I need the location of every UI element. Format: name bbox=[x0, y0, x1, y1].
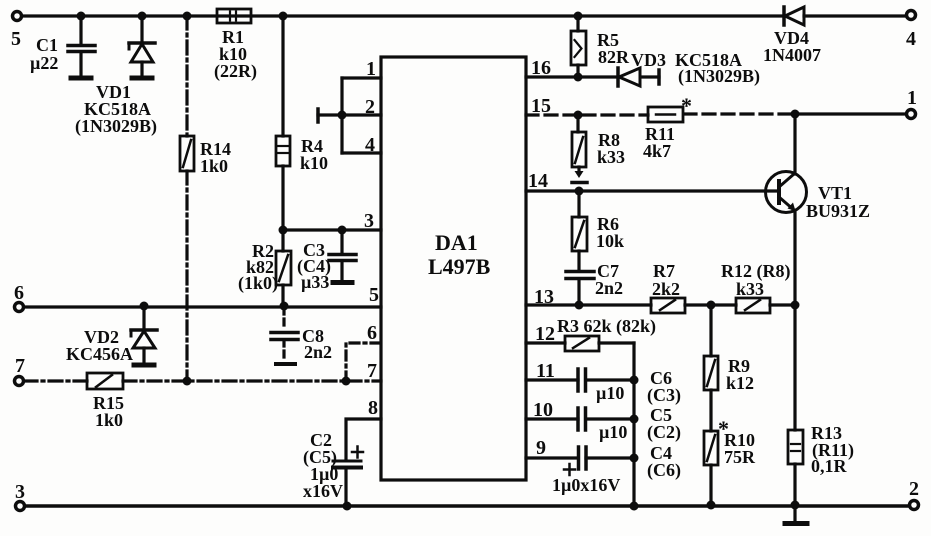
svg-text:82R: 82R bbox=[598, 47, 630, 67]
node junction R8/pin15 bbox=[574, 111, 583, 120]
node junction R5/top rail bbox=[574, 12, 583, 21]
capacitor C2 (C5) 1µ0 x16V polarized bbox=[303, 430, 363, 505]
svg-text:1N4007: 1N4007 bbox=[763, 45, 821, 65]
svg-text:4: 4 bbox=[906, 28, 916, 50]
svg-text:(C3): (C3) bbox=[647, 385, 681, 406]
svg-text:(1N3029B): (1N3029B) bbox=[75, 116, 157, 137]
pin 8 label bbox=[368, 397, 378, 419]
pin 1 wire bbox=[342, 58, 381, 80]
pin 10 label bbox=[533, 399, 553, 421]
terminal 3 bbox=[15, 481, 25, 511]
resistor R9 k12 bbox=[704, 305, 754, 431]
node junction dash-dot/top rail bbox=[183, 12, 192, 21]
resistor R14 1k0 bbox=[180, 136, 231, 176]
svg-text:(C6): (C6) bbox=[647, 460, 681, 481]
pin 14 label bbox=[528, 170, 548, 192]
svg-text:R3 62k (82k): R3 62k (82k) bbox=[557, 316, 656, 337]
pin 5 label bbox=[369, 284, 379, 306]
svg-text:8: 8 bbox=[368, 397, 378, 419]
svg-text:k33: k33 bbox=[597, 147, 625, 167]
svg-text:5: 5 bbox=[369, 284, 379, 306]
terminal 7 bbox=[15, 355, 26, 386]
node junction dash-dot vertical/net7 bbox=[183, 377, 192, 386]
svg-text:2: 2 bbox=[909, 478, 919, 500]
node junction R4 branch/top rail bbox=[279, 12, 288, 21]
transistor VT1 BU931Z bbox=[766, 114, 871, 305]
wire pin 13 bbox=[526, 303, 795, 306]
svg-text:DA1: DA1 bbox=[435, 230, 478, 255]
capacitor C1 µ22 bbox=[30, 16, 95, 78]
svg-text:(C2): (C2) bbox=[647, 422, 681, 443]
ground bbox=[785, 506, 807, 524]
svg-text:3: 3 bbox=[364, 210, 374, 232]
wire bottom rail bbox=[25, 504, 908, 508]
asterisk mark near R10 bbox=[718, 416, 729, 441]
svg-text:µ10: µ10 bbox=[596, 383, 624, 403]
svg-text:6: 6 bbox=[14, 282, 24, 304]
wire dash-dot link to pin 6 bbox=[346, 343, 381, 381]
svg-text:k33: k33 bbox=[736, 279, 764, 299]
node junction bracket/pin2 stub bbox=[338, 111, 347, 120]
wire pin 14 to base of VT1 bbox=[526, 189, 779, 192]
pin 12 label bbox=[535, 323, 555, 345]
wire capacitor bus vertical bbox=[632, 343, 635, 505]
resistor R7 2k2 bbox=[651, 261, 685, 313]
resistor R11 4k7 bbox=[643, 107, 683, 161]
pin 15 label bbox=[531, 95, 551, 117]
svg-text:1: 1 bbox=[907, 87, 917, 109]
svg-text:R7: R7 bbox=[653, 261, 675, 281]
svg-text:3: 3 bbox=[15, 481, 25, 503]
node junction C2/bottom rail bbox=[343, 502, 352, 511]
node junction R2-C8/net6 bbox=[280, 302, 289, 311]
capacitor C8 2n2 bbox=[271, 308, 332, 364]
capacitor C5 (C2) µ10 bbox=[526, 405, 681, 443]
node junction VD1/top rail bbox=[138, 12, 147, 21]
svg-text:1: 1 bbox=[366, 58, 376, 80]
svg-text:1k0: 1k0 bbox=[95, 410, 123, 430]
node junction C5/bus bbox=[630, 415, 639, 424]
svg-text:VD3: VD3 bbox=[631, 50, 666, 70]
svg-text:10k: 10k bbox=[596, 231, 624, 251]
resistor R15 1k0 bbox=[87, 373, 124, 430]
wire pin 16 bbox=[526, 75, 659, 78]
node junction R6/pin14 bbox=[575, 187, 584, 196]
capacitor C6 (C3) µ10 bbox=[526, 368, 681, 406]
pin 4 wire bbox=[342, 134, 381, 156]
svg-text:4k7: 4k7 bbox=[643, 141, 671, 161]
svg-text:4: 4 bbox=[365, 134, 375, 156]
node junction R13-ground/bottom rail bbox=[791, 501, 800, 510]
wire dash-dot net 7 to pin 7 bbox=[24, 379, 381, 382]
wire bracket tying pins 1-2-4 bbox=[340, 78, 343, 153]
svg-text:14: 14 bbox=[528, 170, 548, 192]
wire net 1 bbox=[795, 112, 906, 115]
svg-text:C1: C1 bbox=[36, 35, 58, 55]
node junction C7/pin13 bbox=[575, 301, 584, 310]
wire pin 8 bbox=[346, 419, 381, 459]
svg-text:2n2: 2n2 bbox=[304, 342, 332, 362]
pin 7 label bbox=[367, 360, 377, 382]
svg-text:1k0: 1k0 bbox=[200, 156, 228, 176]
svg-text:(22R): (22R) bbox=[214, 61, 257, 82]
pin 6 label bbox=[367, 322, 377, 344]
resistor R10 75R bbox=[704, 430, 756, 505]
wire pin 15 dashed bbox=[526, 114, 793, 115]
node junction R4-R2/pin3 bbox=[279, 226, 288, 235]
node junction pin6 link/net7 bbox=[342, 377, 351, 386]
svg-text:k10: k10 bbox=[300, 153, 328, 173]
zener diode VD2 KC456A bbox=[66, 307, 157, 365]
svg-text:7: 7 bbox=[15, 355, 25, 377]
pin 16 label bbox=[531, 57, 551, 79]
svg-text:9: 9 bbox=[536, 437, 546, 459]
svg-text:2: 2 bbox=[365, 96, 375, 118]
svg-text:75R: 75R bbox=[724, 447, 756, 467]
svg-text:5: 5 bbox=[11, 28, 21, 50]
pin 11 label bbox=[536, 360, 555, 382]
resistor R13 (R11) 0,1R bbox=[788, 305, 854, 505]
svg-text:x16V: x16V bbox=[303, 481, 343, 501]
capacitor C7 2n2 bbox=[566, 261, 623, 305]
wire pin 3 bbox=[283, 228, 381, 231]
svg-text:*: * bbox=[681, 93, 692, 118]
terminal 1 bbox=[907, 87, 918, 119]
wire R2 to pin5 rail bbox=[281, 285, 284, 305]
diode VD4 1N4007 bbox=[763, 7, 821, 65]
svg-text:µ22: µ22 bbox=[30, 53, 58, 73]
node junction R12/emitter bbox=[791, 301, 800, 310]
node junction VD2/net6 bbox=[140, 302, 149, 311]
svg-text:VT1: VT1 bbox=[818, 183, 852, 203]
resistor R5 82R bbox=[571, 16, 630, 77]
terminal 4 bbox=[906, 11, 916, 51]
wire net 6 to pin 5 bbox=[24, 305, 381, 308]
svg-text:(1k0): (1k0) bbox=[238, 273, 278, 294]
capacitor C4 (C6) 1µ0x16V polarized bbox=[526, 443, 681, 495]
resistor R3 62k (82k) bbox=[526, 316, 656, 351]
svg-text:2n2: 2n2 bbox=[595, 278, 623, 298]
terminal 5 bbox=[11, 12, 22, 51]
resistor R4 k10 bbox=[276, 136, 328, 173]
node junction R10/bottom rail bbox=[707, 501, 716, 510]
resistor R8 k33 bbox=[572, 115, 625, 183]
wire dash-dot vertical branch bbox=[185, 16, 188, 381]
svg-text:BU931Z: BU931Z bbox=[806, 201, 870, 221]
svg-text:k12: k12 bbox=[726, 373, 754, 393]
svg-text:0,1R: 0,1R bbox=[811, 456, 848, 476]
wire vertical branch to R4/R2 bbox=[281, 16, 284, 251]
svg-text:µ10: µ10 bbox=[599, 422, 627, 442]
svg-text:7: 7 bbox=[367, 360, 377, 382]
diode VD3 KC518A (1N3029B) bbox=[618, 50, 760, 87]
node junction C1/top rail bbox=[77, 12, 86, 21]
svg-text:6: 6 bbox=[367, 322, 377, 344]
svg-text:L497B: L497B bbox=[428, 254, 491, 279]
wire stub with terminal tick at pin 2 bbox=[318, 109, 342, 122]
node junction R5/pin16 bbox=[574, 73, 583, 82]
node junction C3/pin3 bbox=[338, 226, 347, 235]
node junction R7-R9/pin13 bbox=[707, 301, 716, 310]
pin 13 label bbox=[534, 286, 554, 308]
asterisk mark near R11 bbox=[681, 93, 692, 118]
pin 3 label bbox=[364, 210, 374, 232]
svg-text:2k2: 2k2 bbox=[652, 279, 680, 299]
resistor R6 10k bbox=[572, 191, 624, 270]
svg-text:KC456A: KC456A bbox=[66, 344, 133, 364]
node junction bus/bottom rail bbox=[630, 502, 639, 511]
svg-text:µ33: µ33 bbox=[301, 272, 329, 292]
resistor R12 (R8) k33 bbox=[721, 261, 791, 313]
terminal 6 bbox=[14, 282, 24, 312]
node junction collector/net1 bbox=[791, 110, 800, 119]
wire VD4 to terminal 4 bbox=[804, 14, 906, 17]
wire top rail from terminal 5 to VD4 bbox=[22, 14, 783, 17]
pin 2 wire bbox=[342, 96, 381, 118]
svg-text:1µ0x16V: 1µ0x16V bbox=[552, 475, 620, 495]
resistor R2 k82 (1k0) bbox=[238, 241, 291, 294]
svg-text:(1N3029B): (1N3029B) bbox=[678, 66, 760, 87]
resistor R1 k10 (22R) bbox=[214, 9, 257, 82]
zener diode VD1 KC518A (1N3029B) bbox=[75, 16, 157, 137]
op-amp U1 / IC DA1 L497B bbox=[381, 57, 526, 480]
terminal 2 bbox=[909, 478, 919, 510]
capacitor C3 (C4) µ33 bbox=[297, 230, 356, 292]
pin 9 label bbox=[536, 437, 546, 459]
node junction C6/bus bbox=[630, 376, 639, 385]
node junction C4/bus bbox=[630, 454, 639, 463]
